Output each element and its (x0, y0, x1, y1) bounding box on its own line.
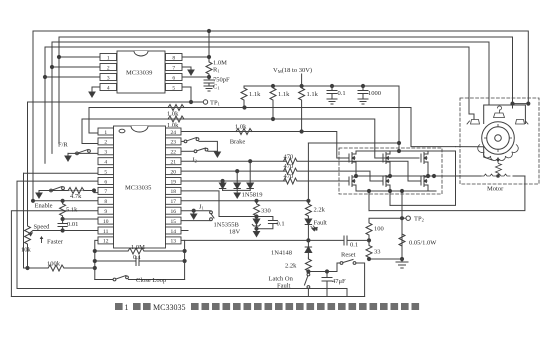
node dot R1/C1 junction pin6 (207, 75, 210, 78)
wire latch RC row (308, 239, 344, 241)
wire rectA top loop Vcc (33, 31, 528, 201)
resistor 1.0M feedback (95, 250, 128, 252)
svg-text:11: 11 (103, 229, 109, 235)
svg-text:330: 330 (261, 208, 271, 215)
switch on 4.7k wire (50, 189, 53, 192)
capacitor 47uF (326, 272, 328, 278)
svg-text:C1: C1 (213, 84, 220, 91)
svg-text:19: 19 (170, 179, 176, 185)
wire F/R into pin3 (75, 152, 98, 154)
wire pin21 bottom drive (182, 160, 286, 162)
svg-text:24: 24 (170, 130, 176, 136)
node dot pin7 (92, 189, 95, 192)
svg-text:13: 13 (170, 239, 176, 245)
motor dashed box (460, 98, 539, 184)
diode 1N5819 #1 (222, 181, 224, 183)
resistor 100 (366, 222, 372, 236)
svg-text:TP2: TP2 (414, 216, 424, 223)
switch reset (340, 262, 343, 265)
node dot 1n5819 #1 (221, 179, 224, 182)
wire H1 pin1 top drive (89, 107, 245, 109)
svg-text:8: 8 (104, 199, 107, 205)
vertical 2.2k fault column (307, 143, 309, 203)
resistor 330 (254, 201, 260, 217)
svg-text:0.1: 0.1 (350, 242, 358, 249)
svg-text:8: 8 (172, 55, 175, 61)
svg-text:2: 2 (104, 140, 107, 146)
svg-text:22: 22 (170, 150, 176, 156)
capacitor 0.1 beside zener (257, 217, 273, 221)
svg-text:17: 17 (170, 199, 176, 205)
svg-text:14: 14 (170, 229, 176, 235)
wire ground bus bottom (11, 296, 364, 298)
MOSFET bridge dashed box (339, 148, 442, 194)
wire H2 pin2 top drive (82, 118, 273, 120)
node dot zener bottom (255, 227, 258, 230)
LED fault (305, 219, 311, 225)
svg-text:2.2k: 2.2k (285, 263, 297, 270)
node dot 209,57 (207, 55, 210, 58)
svg-text:10k: 10k (21, 247, 32, 254)
wire hall col to pin5 (23, 173, 25, 268)
svg-text:4.7k: 4.7k (70, 193, 82, 200)
svg-text:Fault: Fault (314, 220, 328, 227)
wire diode common (223, 189, 251, 191)
wire fault column to VM vertical (308, 142, 399, 144)
capacitor 0.1 feedback (95, 260, 136, 262)
wire pin17 VC (182, 200, 308, 202)
svg-text:1.1k: 1.1k (278, 91, 290, 98)
wire wiper to pin11 (33, 230, 98, 232)
wire VM rail (244, 86, 399, 151)
motor winding coil (496, 159, 500, 162)
svg-text:0.1: 0.1 (133, 254, 141, 261)
svg-text:470: 470 (284, 173, 294, 180)
pin numbers MC33035 right (170, 130, 176, 245)
svg-text:2: 2 (107, 65, 110, 71)
wire second bottom line (17, 289, 347, 297)
svg-text:1N5819: 1N5819 (242, 192, 263, 199)
svg-text:Latch On: Latch On (269, 276, 294, 283)
wire pot bottom to 100k (27, 245, 29, 268)
svg-text:J1: J1 (199, 204, 204, 211)
svg-text:23: 23 (170, 140, 176, 146)
ground brake/J2 (214, 152, 220, 157)
wire phase column 3 (427, 164, 429, 176)
wire phase column 2 (389, 164, 391, 176)
wire phase B wrap under motor (369, 176, 525, 211)
switch latch on fault (307, 273, 310, 276)
wire sensor bracket rect (484, 105, 526, 124)
wire phase column 1 (355, 164, 357, 176)
rotor radial ticks (484, 124, 511, 151)
diode 1N5819 #2 (236, 171, 238, 183)
capacitor 0.1 series (343, 236, 345, 245)
jumper J1 (210, 211, 213, 214)
node dot pin2 tap (50, 65, 53, 68)
wire rectC hall B loop (52, 42, 489, 153)
node dot 1n5819 #2 (236, 170, 239, 173)
pin boxes MC33039 left (100, 54, 117, 61)
svg-text:10: 10 (103, 219, 109, 225)
node dot zener top (255, 215, 258, 218)
wire enable Vref pin8 (33, 200, 98, 202)
wire bridge top rail (356, 150, 436, 152)
pin numbers MC33035 left (103, 130, 109, 245)
switch F/R (76, 152, 79, 155)
test point TP1 circle (203, 100, 207, 104)
svg-text:0.1: 0.1 (338, 90, 346, 97)
wire rectB hall A loop (59, 37, 513, 144)
zener 1N5355B (256, 217, 258, 220)
resistor 470 #2 (284, 168, 298, 174)
svg-text:470: 470 (284, 163, 294, 170)
ground below C1 (204, 85, 214, 87)
svg-text:9: 9 (104, 209, 107, 215)
ground F/R (65, 156, 71, 161)
resistor 4.7k (68, 188, 84, 194)
motor rotor circles (482, 122, 515, 155)
svg-text:1: 1 (125, 303, 129, 312)
MC33039 IC (100, 51, 182, 93)
node dot 330 top (255, 199, 258, 202)
test point TP2 (402, 217, 406, 219)
svg-text:3: 3 (104, 150, 107, 156)
node dot pot/100k (26, 266, 29, 269)
svg-text:Brake: Brake (230, 139, 246, 146)
resistor 470 #3 (284, 178, 298, 184)
node dot H3 1.1k (300, 130, 303, 133)
svg-text:1.0M: 1.0M (131, 244, 145, 251)
resistor 2.2k latch (305, 258, 311, 272)
node dot 191,102 (189, 100, 192, 103)
svg-text:33: 33 (374, 249, 381, 256)
node dot 5.1k bottom (61, 217, 64, 220)
pin boxes MC33039 right (166, 54, 183, 61)
wire sense column (401, 191, 403, 259)
svg-text:5: 5 (172, 85, 175, 91)
node dot fault/latch (307, 239, 310, 242)
node dot pin3 tap (43, 75, 46, 78)
node dot vref left (31, 199, 34, 202)
wire vertical x209 from top loop (208, 31, 210, 60)
node dot 33 top (367, 239, 370, 242)
svg-text:750pF: 750pF (213, 77, 230, 84)
svg-text:470: 470 (284, 153, 294, 160)
svg-text:MC33035: MC33035 (153, 303, 185, 312)
svg-text:1.1k: 1.1k (307, 91, 319, 98)
capacitor 1000 on VM (362, 86, 364, 91)
svg-text:0.05/1.0W: 0.05/1.0W (409, 240, 437, 247)
svg-text:1.1k: 1.1k (249, 91, 261, 98)
svg-text:0.01: 0.01 (67, 221, 78, 228)
wire pin9 current sense loop (11, 211, 98, 297)
wire MC33039 pin3 (45, 76, 100, 78)
ground 4.7k wire (38, 191, 40, 194)
svg-text:J2: J2 (192, 157, 197, 164)
wire MC33039 pin5 to TP1 (182, 87, 191, 102)
svg-text:20: 20 (170, 169, 176, 175)
node dot latch (307, 270, 310, 273)
wire pin20 bottom drive (182, 170, 286, 172)
wire pin6 loop (17, 181, 98, 288)
diode 1N4148 (307, 240, 309, 247)
resistor 100k (24, 267, 49, 269)
resistor 0.05/1.0W (399, 232, 405, 248)
wire F/R ground stub (67, 153, 69, 156)
node dot 33 bottom (367, 257, 370, 260)
svg-text:1.0k: 1.0k (167, 122, 179, 129)
svg-text:1000: 1000 (368, 90, 381, 97)
wire MC33039 pin7 to ground (182, 67, 191, 70)
wire 5.1k bottom to pin10 (63, 218, 98, 220)
resistor 470 #1 (284, 158, 298, 164)
svg-text:Reset: Reset (341, 252, 356, 259)
potentiometer speed 10k (25, 225, 31, 245)
svg-text:1: 1 (107, 55, 110, 61)
wire MC33039 pin8 to Vcc rail (182, 56, 209, 58)
svg-text:Motor: Motor (487, 186, 504, 193)
svg-text:Fault: Fault (277, 283, 291, 290)
resistor 1.0k on H3 (236, 129, 252, 135)
ground zener (256, 229, 258, 232)
transistor Q1 top left (349, 151, 356, 164)
svg-text:R1: R1 (213, 67, 220, 74)
resistor 1.1k #3 (299, 86, 305, 131)
node dots on VM rail (271, 84, 274, 87)
MC33035 pin22 J2 (182, 150, 194, 152)
resistor R1 1.0M (206, 60, 212, 76)
resistor 5.1k (60, 201, 66, 219)
svg-text:4: 4 (104, 160, 107, 166)
svg-text:3: 3 (107, 75, 110, 81)
svg-text:Faster: Faster (47, 239, 64, 246)
svg-text:100k: 100k (47, 261, 61, 268)
svg-text:TP1: TP1 (210, 100, 220, 107)
svg-text:21: 21 (170, 160, 176, 166)
wire MC33039 pin6 (182, 76, 209, 78)
wire pin14 stub (182, 230, 188, 232)
svg-text:1.0M: 1.0M (213, 60, 227, 67)
svg-text:4: 4 (107, 85, 110, 91)
svg-text:1: 1 (104, 130, 107, 136)
wire winding bottom arms (481, 174, 510, 176)
node dot TP2 (400, 217, 403, 220)
wire 100/33 branch (369, 218, 402, 222)
wire 33 bottom to sense ground (369, 258, 402, 260)
svg-text:1.0k: 1.0k (167, 111, 179, 118)
node dot 1n5819 #3 (249, 160, 252, 163)
pin numbers MC33039 (107, 55, 176, 91)
wire phase C wrap under motor (390, 151, 456, 205)
wire H3 pin24 top drive (182, 131, 302, 133)
node dot 5.1k top (61, 199, 64, 202)
svg-text:12: 12 (103, 239, 109, 245)
svg-text:6: 6 (104, 179, 107, 185)
wire phase bus to winding (356, 175, 481, 177)
node dot 0.01 bottom (61, 229, 64, 232)
wire rectD hall C loop (45, 47, 469, 163)
wire MC33039 pin2 (52, 66, 100, 68)
svg-text:47μF: 47μF (332, 278, 346, 285)
wire phase A into motor left (456, 146, 484, 148)
diode 1N5819 #3 (249, 161, 251, 183)
svg-text:18V: 18V (229, 229, 241, 236)
wire error amp left vertical pin12 (95, 240, 98, 279)
ground below 0.1 (327, 98, 337, 100)
capacitor 0.1 on VM (331, 86, 333, 91)
resistor 33 (366, 240, 372, 259)
svg-text:2.2k: 2.2k (314, 207, 326, 214)
svg-text:1N4148: 1N4148 (271, 250, 292, 257)
stator scallop (478, 145, 519, 161)
node dot 100k right (93, 266, 96, 269)
svg-text:Close Loop: Close Loop (136, 277, 166, 284)
svg-text:MC33035: MC33035 (125, 185, 151, 192)
svg-text:Speed: Speed (34, 224, 51, 231)
hall sensor icons (467, 106, 528, 124)
wire bridge bottom rail (356, 190, 436, 192)
ground MC33039 pin4 (89, 92, 95, 97)
wire error amp right vertical pin13 (182, 240, 185, 279)
resistor 1.0k on H1 (168, 105, 184, 111)
svg-text:7: 7 (172, 65, 175, 71)
wire pin13 to fault node (185, 239, 309, 241)
node dot H2 1.1k (271, 117, 274, 120)
pin boxes MC33035 right (166, 128, 182, 244)
svg-text:6: 6 (172, 75, 175, 81)
wire pin16 ground + J1 (182, 210, 211, 212)
node dot pin1 tap (57, 55, 60, 58)
wire TP1 run to left and down to speed pot (28, 102, 204, 225)
svg-text:7: 7 (104, 189, 107, 195)
wire latch row to 47uF and reset (308, 263, 340, 272)
capacitor 0.01 (62, 219, 64, 224)
svg-text:MC33039: MC33039 (126, 70, 152, 77)
MC33035 IC (114, 126, 166, 248)
node dot 209,31 (207, 29, 210, 32)
node dot 47uF top (325, 270, 328, 273)
resistor 1.0k on H2 (168, 116, 184, 122)
svg-text:5.1k: 5.1k (66, 207, 78, 214)
svg-text:1N5355B: 1N5355B (214, 222, 240, 229)
wire pin18 VCC to zener node (182, 191, 257, 217)
svg-text:Enable: Enable (35, 203, 53, 210)
resistor 1.1k #1 (241, 86, 247, 108)
wire hall sensor feed dots (513, 103, 529, 105)
switch close loop (95, 279, 113, 281)
caption simulated CJK blocks (115, 303, 419, 312)
ground MC33039 pin7 (188, 70, 194, 75)
ground below 1000 (358, 98, 368, 100)
wire pin15 (182, 220, 211, 222)
wire MC33039 pin4 to ground (92, 87, 100, 92)
resistor 2.2k (305, 203, 311, 217)
faster arrow (40, 236, 44, 243)
svg-text:VM(18 to 30V): VM(18 to 30V) (273, 67, 312, 74)
svg-text:15: 15 (170, 219, 176, 225)
MC33035 pin23 brake switch (182, 140, 184, 142)
svg-text:5: 5 (104, 169, 107, 175)
wire VM label stub (301, 74, 303, 86)
svg-text:16: 16 (170, 209, 176, 215)
node dot sense bottom (400, 257, 403, 260)
svg-text:0.1: 0.1 (277, 221, 285, 228)
svg-text:100: 100 (374, 226, 384, 233)
node dot H1 1.1k (243, 106, 246, 109)
wire pin19 bottom drive (182, 180, 286, 182)
svg-text:18: 18 (170, 189, 176, 195)
ground sense (401, 259, 403, 262)
pin boxes MC33035 left (98, 128, 114, 244)
svg-text:F/R: F/R (58, 142, 68, 149)
svg-text:1.0k: 1.0k (235, 124, 247, 131)
ground diode common (236, 190, 238, 193)
capacitor C1 750pF (208, 76, 210, 80)
resistor 1.1k #2 (270, 86, 276, 119)
wire MC33039 pin1 (59, 56, 100, 58)
wire 4.7k enable pin7 (39, 191, 98, 193)
